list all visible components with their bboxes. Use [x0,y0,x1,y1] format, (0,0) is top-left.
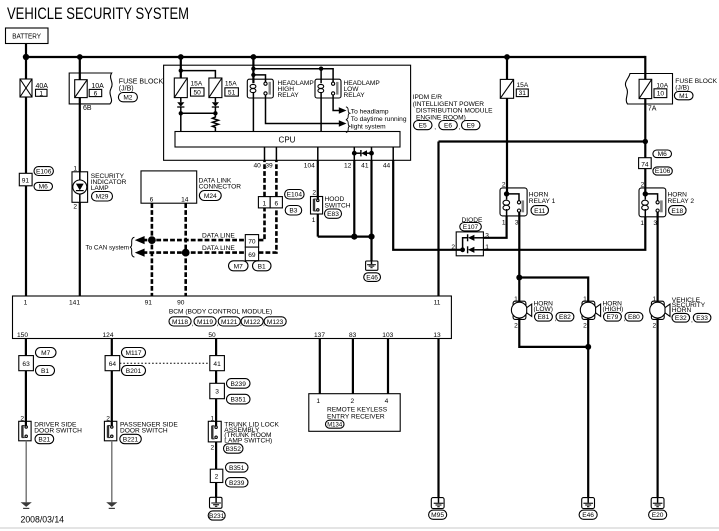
svg-text:To headlamp: To headlamp [351,108,389,115]
wire CPU pin 44 [392,147,394,160]
svg-text:B239: B239 [230,381,246,388]
wire branch to fuse 51 [181,71,216,78]
svg-text:To CAN system: To CAN system [86,245,130,252]
wire bus down to fuse block M2 [79,57,81,80]
wire BCM 83 to receiver [352,339,354,394]
wire 69 to connector 6 (CAN) [259,208,277,253]
wire hood switch to ground line [317,214,319,237]
svg-text:B21: B21 [38,437,50,444]
svg-text:6B: 6B [83,105,92,112]
svg-text:39: 39 [265,163,273,170]
svg-text:(J/B): (J/B) [675,85,689,92]
svg-text:91: 91 [22,177,30,184]
svg-text:ENTRY RECEIVER: ENTRY RECEIVER [327,414,385,421]
svg-text:6: 6 [150,196,154,203]
svg-text:1: 1 [502,220,506,227]
horn relay 2 E18 [639,188,694,217]
wire BCM 103 to receiver [387,339,389,394]
svg-text:2: 2 [211,444,215,451]
svg-text:light system: light system [351,123,386,130]
svg-text:,: , [434,124,436,131]
svg-text:51: 51 [228,90,236,97]
ground B231 [208,497,225,520]
svg-text:E6: E6 [444,123,452,130]
ground E46 bottom [579,498,597,520]
brace 2 [346,120,350,133]
BCM box [13,296,452,339]
wire 41 to connector 3 [215,371,217,384]
svg-text:103: 103 [382,332,393,339]
hood switch E83 [311,196,351,218]
svg-text:83: 83 [349,332,357,339]
svg-text:10: 10 [657,91,665,98]
resistor R [212,113,218,131]
connector 74 M6/E106 [639,150,673,175]
arrow to daytime running [339,120,347,127]
node bus-fuse31 [504,54,510,60]
trunk lid lock assembly B352 [208,421,279,453]
fuse 15A 31 [500,79,529,98]
node 141.5 [643,139,648,144]
diode below fuse 50 [177,98,184,114]
wire BCM 50 to connector 41 [215,339,217,356]
wire horn high to E46 ground [587,318,589,498]
svg-text:91: 91 [145,299,153,306]
wire fuse 6 to lamp [79,98,81,172]
wire IPDM 12 down [353,160,355,236]
connector 41 [210,356,225,371]
headlamp low relay [253,67,380,132]
node 12-gnd [351,234,357,240]
wire bus corner to fuse block M1 [644,56,646,79]
brace CAN [130,237,134,257]
label B1 oval [253,261,272,271]
node right [213,111,217,115]
wire CPU pin 40 [264,147,266,160]
svg-text:B231: B231 [209,513,225,520]
wire ground line hood/12/41 [318,236,372,238]
svg-text:70: 70 [248,239,256,246]
svg-text:E82: E82 [559,314,571,321]
svg-text:B1: B1 [41,368,49,375]
svg-text:M7: M7 [41,350,50,357]
svg-text:RELAY 2: RELAY 2 [668,198,695,205]
svg-text:2: 2 [451,244,455,251]
connector 64 M117/B201 [105,348,145,376]
svg-text:M29: M29 [96,194,109,201]
fuse 15A 51 [209,78,239,98]
svg-text:2: 2 [312,189,316,196]
vehicle security horn E32/E33 [650,297,711,324]
node bus-10A [77,54,83,60]
svg-text:M122: M122 [244,319,261,326]
svg-text:E83: E83 [327,211,339,218]
wire to horn high [519,278,588,303]
svg-text:7A: 7A [648,106,657,113]
wire diode 3 to horn relay 1 pin 1 [483,216,506,238]
svg-text:2: 2 [73,204,77,211]
horn (low) E81/E82 [511,300,574,322]
svg-text:E5: E5 [419,123,427,130]
BCM connector ovals [169,317,286,328]
diode between pins 12 and 41 [352,150,374,156]
svg-text:44: 44 [383,163,391,170]
svg-text:6: 6 [274,200,278,207]
svg-text:1: 1 [39,90,43,97]
battery B1 [6,28,49,44]
wire DLC 14 to BCM 90 (CAN) [184,203,187,296]
ground E46 mid [364,261,381,281]
wire BCM 137 to receiver [319,339,321,394]
wire driver switch to body ground [25,441,27,503]
ground E20 [649,498,667,520]
svg-text:E11: E11 [534,208,546,215]
wire BCM 13 to ground M95 [437,339,439,498]
IPDM E/R box [164,65,411,160]
wire connector1 to IPDM 40 (CAN) [263,160,266,196]
svg-text:15A: 15A [191,81,203,88]
security indicator lamp M29 [72,172,127,203]
wire bus to fuse 50 [180,57,182,78]
svg-text:2: 2 [215,474,219,481]
svg-text:2: 2 [514,323,518,330]
wire main bus [26,56,645,58]
wire M1 fuse down [644,99,646,158]
svg-text:2: 2 [653,323,657,330]
svg-text:E107: E107 [463,224,479,231]
svg-text:BATTERY: BATTERY [12,31,41,40]
label FUSE BLOCK (J/B) M1 [674,78,717,100]
svg-text:B352: B352 [225,446,241,453]
connector 70 [245,235,258,248]
svg-text:M118: M118 [172,319,188,326]
svg-text:,: , [459,124,461,131]
wire horizontal 141.5 [439,140,646,142]
wire 64 to passenger door switch [111,371,113,426]
svg-text:124: 124 [102,332,113,339]
diode below fuse 51 [212,98,219,114]
wire to E46 mid ground [370,237,372,261]
wire bus down to fusible link [25,57,27,79]
wire connector6 to IPDM 39 (CAN) [275,160,278,196]
label IPDM E/R [413,94,493,131]
svg-text:E104: E104 [287,192,303,199]
svg-text:M6: M6 [39,184,48,191]
svg-text:B221: B221 [123,437,139,444]
wire 74 to horn relay 2 [644,169,646,194]
svg-text:E46: E46 [366,274,378,281]
svg-text:M6: M6 [658,151,667,158]
svg-text:VEHICLE SECURITY SYSTEM: VEHICLE SECURITY SYSTEM [7,5,189,23]
node horn gnd join [585,344,591,350]
ground driver [21,502,32,508]
svg-text:2008/03/14: 2008/03/14 [21,515,65,525]
svg-text:2: 2 [350,398,354,405]
wire dotted 64 to 41 [120,362,210,364]
remote keyless entry receiver M134 [309,394,400,432]
wire 63 to driver door switch [25,371,27,426]
horn (high) E79/E80 [580,300,643,322]
driver side door switch B21 [19,421,82,443]
svg-text:63: 63 [22,361,30,368]
svg-text:CPU: CPU [279,135,296,144]
svg-text:M117: M117 [125,350,141,357]
connector 91 E106/M6 [19,167,53,191]
svg-text:B1: B1 [258,263,266,270]
svg-text:E18: E18 [671,208,683,215]
fuse block (J/B) M1 outline [625,74,672,105]
svg-text:74: 74 [641,161,649,168]
svg-text:DATA LINE: DATA LINE [202,233,235,240]
svg-text:To daytime running: To daytime running [351,116,407,123]
svg-text:B3: B3 [289,208,297,215]
wire high relay contact out to arrow [266,95,340,124]
svg-text:15A: 15A [225,81,237,88]
horn relay 1 E11 [500,188,556,216]
connector 69 [245,247,258,261]
CPU box [175,132,400,148]
svg-text:137: 137 [314,332,325,339]
wire 3 to trunk switch [215,399,217,427]
connector 1 E104/B3 [258,190,304,216]
svg-text:B239: B239 [229,480,245,487]
svg-text:E46: E46 [582,512,594,519]
svg-text:DATA LINE: DATA LINE [202,245,235,252]
wire fuse31 feed [506,57,508,79]
wire IPDM 104 to hood switch [317,160,319,199]
svg-text:B201: B201 [126,368,142,375]
svg-text:1: 1 [24,299,28,306]
connector 2 B351/B239 [210,463,248,487]
wire BCM 124 to connector 64 [111,339,113,356]
node data line 1 [148,236,156,244]
wire 91 to BCM pin 1 [25,186,27,296]
label FUSE BLOCK (J/B) M2 [118,79,163,102]
data link connector M24 [141,171,241,203]
wire DLC 6 to BCM 91 (CAN) [151,203,154,296]
node left [179,111,183,115]
svg-text:2: 2 [583,323,587,330]
wire BCM 150 to connector 63 [25,339,27,356]
svg-text:64: 64 [109,361,117,368]
svg-text:M7: M7 [234,263,243,270]
svg-text:M121: M121 [221,319,238,326]
node 41-gnd [368,234,374,240]
svg-text:150: 150 [17,332,28,339]
wire CPU pin 12 [353,147,355,160]
label M7 oval [229,261,249,271]
bottom border [0,527,719,529]
svg-text:,: , [691,317,693,324]
wire fuse 31 to horn relay 1 [506,98,508,194]
svg-text:DOOR SWITCH: DOOR SWITCH [34,428,82,435]
svg-text:,: , [192,320,194,327]
svg-text:15A: 15A [517,82,529,89]
wire to CPU left [180,113,182,131]
wire passenger switch to body ground [111,441,113,503]
wire to BCM pin 11 [437,142,439,297]
svg-text:E32: E32 [675,315,687,322]
connector 63 M7/B1 [19,348,56,376]
diode E107 [456,217,483,256]
svg-text:CONNECTOR: CONNECTOR [199,184,242,191]
svg-text:M24: M24 [204,193,217,200]
wire CPU pin 41 [371,147,373,160]
svg-text:FUSE BLOCK: FUSE BLOCK [119,79,164,86]
wire node between diodes [181,112,216,114]
wire 70 to connector 1 (CAN) [259,208,265,240]
svg-text:DOOR SWITCH: DOOR SWITCH [120,428,168,435]
node fuse50/51 branch [179,68,183,72]
svg-text:M123: M123 [267,319,284,326]
connector 3 B239/B351 [210,379,250,404]
fusible link 40A 1 [20,79,48,97]
svg-text:1: 1 [640,220,644,227]
svg-text:REMOTE KEYLESS: REMOTE KEYLESS [327,407,388,414]
svg-text:E9: E9 [467,123,475,130]
svg-text:69: 69 [248,252,256,259]
svg-text:E81: E81 [538,314,550,321]
passenger side door switch B221 [104,421,178,443]
wire battery to bus [25,44,27,58]
ground M95 [429,498,447,520]
node bus-fuse50 [178,54,184,60]
node data line 2 [182,249,190,257]
wire lamp to BCM pin 141 [79,202,81,296]
svg-text:B351: B351 [230,397,246,404]
wire diode 1 to horn relay 2 pin 1 [483,217,645,250]
fuse block (J/B) M2 outline [69,73,112,104]
wire low relay contact out to arrow [333,95,339,111]
svg-text:B351: B351 [229,465,245,472]
svg-text:1: 1 [312,217,316,224]
wire IPDM 41 down [370,160,372,236]
svg-text:1: 1 [316,398,320,405]
svg-text:M1: M1 [679,93,688,100]
headlamp high relay [247,57,314,132]
wire horn relay1 pin3 down [518,212,520,303]
svg-text:1: 1 [262,200,266,207]
svg-text:SWITCH: SWITCH [325,203,351,210]
svg-text:14: 14 [181,196,189,203]
svg-text:41: 41 [213,361,221,368]
svg-text:40: 40 [253,163,261,170]
svg-text:6: 6 [94,91,98,98]
svg-text:M2: M2 [123,95,132,102]
svg-text:RELAY: RELAY [278,92,300,99]
svg-text:BCM (BODY CONTROL MODULE): BCM (BODY CONTROL MODULE) [169,309,272,316]
svg-text:M95: M95 [431,512,444,519]
wire CPU pin 39 [275,147,277,160]
wire CPU pin 104 [317,147,319,160]
svg-text:4: 4 [385,398,389,405]
svg-text:M134: M134 [327,423,343,429]
node horn low junction [516,275,522,281]
svg-text:RELAY: RELAY [344,92,366,99]
wire security horn to E20 ground [656,318,658,498]
svg-text:11: 11 [434,299,441,306]
brace 1 [346,107,350,120]
svg-text:E80: E80 [628,314,640,321]
svg-text:E20: E20 [652,512,664,519]
wire horn relay2 pin3 to security horn [656,212,658,303]
svg-text:31: 31 [519,90,527,97]
svg-text:41: 41 [361,163,369,170]
wire data line 1 [143,239,246,242]
wire trunk to connector 2 [215,442,217,469]
fuse 10A 10 [639,79,669,98]
arrow to headlamp [339,107,347,114]
svg-text:50: 50 [208,332,216,339]
fuse 10A 6 [75,80,104,98]
wire horn low to gnd join [519,318,588,347]
svg-text:50: 50 [194,90,202,97]
arrow to CAN 2 [135,249,145,257]
svg-text:RELAY 1: RELAY 1 [529,198,556,205]
arrow to CAN 1 [135,236,145,244]
svg-text:(J/B): (J/B) [119,86,134,93]
svg-text:12: 12 [344,163,352,170]
svg-text:M119: M119 [197,319,213,326]
svg-text:E106: E106 [655,168,671,175]
svg-text:E79: E79 [607,314,619,321]
fuse 15A 50 [174,78,204,98]
wire connector 2 to ground B231 [215,483,217,498]
svg-text:E106: E106 [36,168,52,175]
ground passenger [106,502,117,508]
wire data line 2 [143,251,246,254]
wire IPDM 44 to diode [393,160,462,250]
node bus-relayfeed [251,54,257,60]
wire 40A to connector 91 [25,97,27,173]
svg-text:141: 141 [69,299,80,306]
svg-text:E33: E33 [696,315,708,322]
svg-text:104: 104 [304,163,315,170]
svg-text:90: 90 [177,299,185,306]
node bus-40A [23,54,29,60]
svg-text:13: 13 [433,332,441,339]
svg-text:3: 3 [215,389,219,396]
